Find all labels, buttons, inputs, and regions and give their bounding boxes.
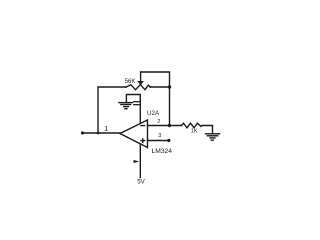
wire output segment [82,132,120,134]
potentiometer wiper arrow [137,72,144,85]
svg-text:1K: 1K [191,128,198,134]
wire resistor to ground [202,126,213,134]
wire pot right to feedback [150,86,170,88]
pin 11 label [134,102,140,105]
wire V+ pin to 5V [139,144,141,178]
node junction feedback/inverting [168,124,171,127]
ground left [119,103,132,109]
node junction pot-right/feedback [168,85,171,88]
svg-text:2: 2 [157,119,160,125]
node non-inverting terminal dot [167,139,170,142]
op-amp U2A [120,120,148,148]
pin 4 label [134,160,139,163]
wire wiper top run [141,72,170,126]
svg-text:5V: 5V [137,179,145,186]
svg-text:U2A: U2A [147,110,160,117]
node output terminal dot [81,131,84,134]
svg-text:LM324: LM324 [152,148,173,155]
resistor R2 1K [182,123,203,128]
svg-text:1: 1 [104,126,108,133]
node junction output/feedback [97,132,100,135]
svg-text:3: 3 [158,133,161,139]
wire inverting input [148,125,182,127]
potentiometer R1 56K [126,85,150,90]
svg-text:56K: 56K [125,79,136,85]
wire V- pin to ground [126,95,140,124]
wire left feedback vertical [98,87,126,133]
wire non-inverting input [148,140,169,142]
ground right [206,134,220,140]
